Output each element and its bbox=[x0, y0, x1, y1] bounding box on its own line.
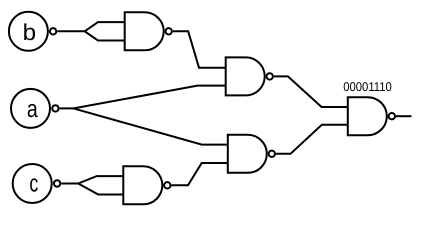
NAND gate U4 (bottom middle) bbox=[228, 135, 267, 173]
wire fan to U1 input 1 bbox=[85, 22, 125, 31]
wire fan to U3 input 1 bbox=[78, 176, 123, 183]
svg-text:c: c bbox=[29, 171, 38, 198]
U1 output bubble bbox=[166, 28, 172, 34]
wire U5 output bbox=[396, 115, 411, 117]
pin a output bubble bbox=[52, 105, 58, 111]
input pin b bbox=[9, 12, 48, 51]
svg-text:b: b bbox=[23, 19, 36, 45]
U5 output bubble bbox=[389, 113, 395, 119]
svg-text:a: a bbox=[27, 96, 38, 123]
U4 output bubble bbox=[269, 151, 275, 157]
wire fan to U3 input 2 bbox=[78, 184, 123, 195]
wire b bubble to fan split bbox=[57, 30, 84, 32]
NAND gate U3 (inverter for c) bbox=[123, 166, 162, 204]
U2 output bubble bbox=[267, 73, 273, 79]
wire U2 output to U5 input 1 bbox=[274, 76, 348, 107]
NAND gate U5 (output gate) bbox=[348, 97, 387, 135]
NAND gate U1 (inverter for b) bbox=[125, 12, 164, 50]
wire U3 output to U4 input 2 bbox=[172, 163, 228, 185]
wire c bubble to fan split bbox=[61, 183, 78, 185]
svg-text:00001110: 00001110 bbox=[343, 80, 392, 94]
wire fan to U1 input 2 bbox=[85, 31, 125, 40]
wire a bubble to fan split bbox=[60, 107, 74, 109]
wire a to U2 input 2 bbox=[74, 86, 226, 109]
U3 output bubble bbox=[164, 182, 170, 188]
pin c output bubble bbox=[54, 180, 60, 186]
input pin a bbox=[11, 89, 50, 128]
pin b output bubble bbox=[50, 28, 56, 34]
wire a to U4 input 1 bbox=[74, 108, 228, 144]
wire U1 output to U2 input 1 bbox=[173, 31, 226, 68]
NAND gate U2 (top middle) bbox=[226, 57, 265, 95]
input pin c bbox=[13, 164, 52, 203]
wire U4 output to U5 input 2 bbox=[276, 125, 348, 154]
